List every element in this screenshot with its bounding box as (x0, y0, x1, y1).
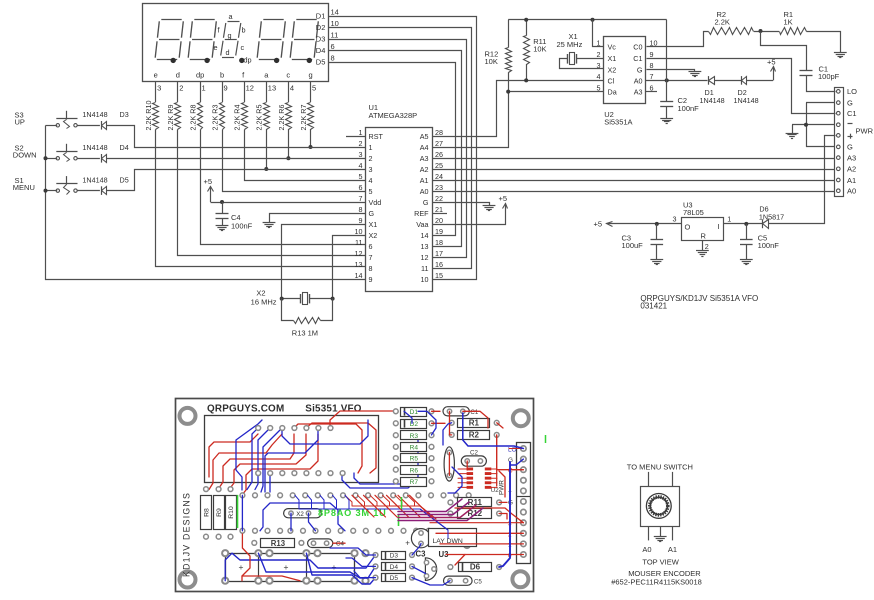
wire minus pin to ground (792, 124, 835, 126)
svg-text:1N4148: 1N4148 (734, 96, 759, 105)
svg-text:C2: C2 (470, 450, 478, 457)
svg-text:A2: A2 (420, 165, 429, 174)
PCB capacitor C3 lay down (411, 529, 430, 548)
svg-text:A0: A0 (642, 545, 651, 554)
svg-text:b: b (242, 26, 246, 35)
capacitor C4 100nF (222, 202, 224, 214)
svg-text:+5: +5 (499, 194, 508, 203)
svg-text:Vaa: Vaa (416, 220, 428, 229)
svg-text:e: e (214, 43, 218, 52)
svg-text:10: 10 (355, 227, 363, 236)
svg-text:11: 11 (331, 31, 339, 40)
svg-text:R1: R1 (469, 418, 480, 427)
svg-text:8: 8 (650, 61, 654, 70)
svg-text:R10: R10 (228, 506, 235, 519)
svg-text:1: 1 (202, 84, 206, 93)
svg-text:R5: R5 (410, 456, 419, 463)
PCB blue bundle middle (295, 495, 448, 538)
encoder body (641, 487, 680, 527)
svg-text:3: 3 (673, 215, 677, 224)
svg-text:9: 9 (224, 84, 228, 93)
encoder shaft circles (646, 494, 671, 519)
PCB display pads bottom row (256, 471, 261, 476)
svg-text:X1: X1 (608, 54, 617, 63)
svg-text:Vdd: Vdd (369, 198, 382, 207)
wire U1 A1 row to connector A1 (432, 180, 835, 182)
svg-text:3: 3 (597, 61, 601, 70)
svg-text:2: 2 (705, 242, 709, 251)
ground at U1 pin 8 (263, 222, 276, 224)
svg-text:D5: D5 (120, 175, 129, 184)
svg-text:4: 4 (369, 176, 373, 185)
svg-text:QRPGUYS.COM: QRPGUYS.COM (207, 403, 284, 414)
svg-text:27: 27 (435, 139, 443, 148)
svg-text:5: 5 (312, 84, 316, 93)
PCB blue traces right area (418, 411, 436, 435)
svg-text:C5: C5 (474, 579, 482, 586)
svg-text:12: 12 (246, 84, 254, 93)
svg-text:3: 3 (157, 84, 161, 93)
svg-text:6: 6 (359, 183, 363, 192)
svg-text:D2: D2 (316, 23, 326, 32)
svg-text:78L05: 78L05 (683, 208, 704, 217)
svg-text:11: 11 (421, 264, 428, 273)
U1 RST stub wire (346, 136, 365, 138)
svg-text:X2: X2 (256, 289, 265, 298)
svg-text:13: 13 (421, 242, 429, 251)
junction R2 R1 (759, 29, 763, 33)
wire U1 Vaa to +5 (433, 209, 506, 225)
wire rail down to A0 row (666, 20, 668, 81)
PCB blue traces display area (247, 428, 258, 490)
svg-text:10: 10 (331, 19, 339, 28)
svg-text:g: g (228, 31, 232, 40)
junction minus (804, 123, 808, 127)
resistor R13 1M (282, 299, 294, 321)
display decimal points (171, 58, 176, 63)
svg-text:21: 21 (435, 205, 443, 214)
svg-text:1N4148: 1N4148 (700, 96, 725, 105)
svg-text:1K: 1K (784, 18, 793, 27)
PCB green line (237, 495, 239, 528)
svg-text:1N5817: 1N5817 (759, 212, 784, 221)
svg-text:13: 13 (268, 84, 276, 93)
svg-text:14: 14 (421, 231, 429, 240)
svg-text:PWR: PWR (856, 127, 874, 136)
PCB resistor R13 (252, 541, 257, 546)
ground at U2 G (689, 71, 702, 73)
svg-text:A0: A0 (847, 187, 856, 196)
svg-text:11: 11 (355, 238, 362, 247)
svg-text:d: d (176, 71, 180, 80)
junction R12 at Da row (506, 90, 510, 94)
svg-text:16 MHz: 16 MHz (251, 298, 277, 307)
svg-text:dp: dp (244, 56, 252, 65)
PCB display module outline (205, 416, 379, 483)
PCB mounting holes (180, 408, 196, 424)
svg-text:8: 8 (359, 205, 363, 214)
junction R5 (264, 167, 268, 171)
wire U2 A0 supply row (646, 80, 708, 82)
svg-text:15: 15 (435, 271, 443, 280)
svg-text:Vc: Vc (608, 43, 617, 52)
svg-text:2.2K R9: 2.2K R9 (166, 105, 175, 131)
svg-text:C1: C1 (470, 409, 478, 416)
svg-text:G: G (847, 98, 853, 107)
diode D6 1N5817 (762, 220, 764, 229)
svg-text:R9: R9 (216, 508, 223, 517)
svg-text:c: c (241, 43, 245, 52)
svg-text:6: 6 (331, 42, 335, 51)
svg-text:12: 12 (355, 249, 363, 258)
PCB crystal X2 footprint (284, 509, 322, 518)
svg-text:1: 1 (359, 128, 363, 137)
svg-text:17: 17 (435, 249, 443, 258)
svg-text:X2: X2 (369, 231, 378, 240)
junction R11 at Cl row (524, 78, 528, 82)
ground after R1 (834, 52, 847, 54)
svg-text:19: 19 (435, 227, 443, 236)
svg-text:+: + (284, 562, 289, 572)
svg-text:X1: X1 (369, 220, 378, 229)
svg-text:KD1JV DESIGNS: KD1JV DESIGNS (182, 492, 192, 577)
svg-text:6: 6 (369, 242, 373, 251)
PCB capacitor C5 footprint (444, 576, 473, 585)
capacitor C1 100pF (800, 70, 813, 72)
svg-text:12: 12 (421, 253, 429, 262)
svg-text:G: G (369, 209, 375, 218)
encoder switch wires (648, 472, 650, 486)
svg-text:A0: A0 (634, 76, 643, 85)
+5 supply arrow at U1 Vdd (210, 187, 212, 203)
svg-text:UP: UP (15, 118, 25, 127)
svg-text:100uF: 100uF (622, 241, 644, 250)
PCB resistor R12 (448, 511, 453, 516)
wire U1 G pin 22 to ground (433, 203, 490, 206)
display D5 wire to U1 pin 19 (329, 63, 456, 236)
PCB blue trace connector column (499, 462, 510, 567)
PCB resistor R2 (449, 433, 454, 438)
svg-text:25: 25 (435, 161, 443, 170)
junction C4 (220, 200, 224, 204)
svg-text:I: I (718, 222, 720, 231)
wire U2 C0 to R2 (647, 32, 709, 47)
PCB connector footprint (517, 443, 531, 564)
svg-text:TOP VIEW: TOP VIEW (642, 558, 679, 567)
svg-text:D2: D2 (410, 421, 419, 428)
svg-text:2.2K R10: 2.2K R10 (144, 101, 153, 131)
PCB purple bundle (398, 499, 462, 512)
ground at C4 (216, 225, 229, 227)
IC U2 Si5351A (604, 37, 646, 104)
svg-text:A1: A1 (668, 545, 677, 554)
svg-text:1: 1 (369, 143, 373, 152)
svg-text:g: g (309, 71, 313, 80)
PCB battery pads (222, 550, 228, 556)
U2 A3 stub wire (646, 91, 657, 93)
svg-text:18: 18 (435, 238, 443, 247)
PCB vertical oval footprint (444, 447, 454, 481)
svg-text:9: 9 (369, 275, 373, 284)
svg-text:LO: LO (847, 87, 857, 96)
svg-text:5: 5 (359, 172, 363, 181)
svg-text:RST: RST (369, 132, 384, 141)
PCB display pads top row (256, 426, 261, 431)
svg-text:14: 14 (355, 271, 363, 280)
svg-text:Si5351A: Si5351A (604, 118, 632, 127)
PCB battery holder outline (226, 554, 355, 582)
svg-text:28: 28 (435, 128, 443, 137)
svg-text:X2: X2 (608, 65, 617, 74)
PCB diodes D3 D4 D5 (373, 553, 378, 558)
svg-text:A1: A1 (847, 176, 856, 185)
PCB red fan middle (345, 495, 436, 519)
ground at U1 pin 22 (483, 205, 496, 207)
svg-text:Cl: Cl (608, 76, 615, 85)
display D4 wire to U1 pin 18 (329, 51, 462, 247)
wire R8 to U1 pin 11 (201, 130, 366, 245)
wire D2 to +5 (747, 80, 773, 82)
connector J1 10-pin header (835, 88, 844, 197)
svg-text:1: 1 (597, 39, 601, 48)
svg-text:13: 13 (355, 260, 363, 269)
svg-text:R8: R8 (203, 508, 210, 517)
svg-text:2: 2 (179, 84, 183, 93)
wire S3 to U1 pin 2 row (107, 126, 366, 148)
svg-text:4: 4 (597, 72, 601, 81)
diode D1 1N4148 (708, 76, 710, 85)
svg-text:R: R (701, 232, 707, 241)
wire R3 to U1 pin 6 (223, 130, 366, 192)
display digit 4 (296, 19, 316, 21)
svg-text:A3: A3 (634, 88, 643, 97)
PCB diodes D1 D2 and resistors R3-R7 (393, 409, 398, 414)
PCB red diagonal bundle (352, 495, 374, 517)
wire R10 to U1 pin 13 (156, 130, 366, 267)
junction S1 bus (44, 189, 48, 193)
svg-text:D1: D1 (316, 11, 326, 20)
svg-text:R7: R7 (410, 479, 419, 486)
svg-text:7: 7 (369, 253, 373, 262)
PCB capacitor C2 footprint (461, 456, 486, 466)
svg-text:MENU: MENU (13, 183, 35, 192)
wire U1 A3 row to connector A3 (432, 158, 835, 160)
svg-text:X2: X2 (296, 511, 304, 518)
PCB blue traces battery area (232, 553, 376, 568)
svg-text:8P8AO 3M 1U: 8P8AO 3M 1U (318, 508, 387, 518)
svg-text:100nF: 100nF (758, 241, 780, 250)
svg-text:D5: D5 (316, 57, 326, 66)
svg-text:2.2K R3: 2.2K R3 (210, 105, 219, 131)
wire R9 to U1 pin 12 (178, 130, 366, 256)
svg-text:10K: 10K (485, 57, 498, 66)
segment resistors R10 R9 R8 R3 R4 R5 R6 R7 2.2K (153, 103, 159, 130)
wire U1 Vdd row (211, 202, 366, 204)
svg-text:2.2K R7: 2.2K R7 (299, 105, 308, 131)
wire rail to U2 Vc pin 1 (593, 20, 604, 47)
PCB resistor R1 (449, 420, 454, 425)
svg-text:A5: A5 (420, 132, 429, 141)
encoder ground wire (660, 526, 662, 536)
svg-text:D4: D4 (120, 143, 129, 152)
encoder ground (654, 536, 667, 538)
svg-text:C1: C1 (633, 54, 642, 63)
svg-text:+: + (405, 539, 410, 548)
svg-text:23: 23 (435, 183, 443, 192)
display segment key diagram (228, 21, 240, 23)
wire S2 to U1 pin 3 (107, 158, 365, 160)
display digit 2 (194, 19, 214, 21)
svg-text:G: G (423, 198, 429, 207)
svg-text:c: c (286, 71, 290, 80)
PCB capacitor C1 footprint (443, 407, 469, 416)
junction R11 top (524, 18, 528, 22)
wire R5 to row of U1 pin 4 (266, 129, 268, 169)
svg-text:2.2K R4: 2.2K R4 (233, 105, 242, 131)
svg-text:100pF: 100pF (818, 72, 840, 81)
wire R1 to ground (807, 32, 841, 53)
PCB resistors R8 R9 R10 vertical (201, 496, 212, 530)
wire U2 C1 to connector C1 (647, 59, 836, 114)
PCB long pad row (240, 493, 245, 498)
svg-text:7: 7 (650, 72, 654, 81)
svg-text:LO: LO (508, 447, 517, 454)
svg-text:R2: R2 (469, 431, 480, 440)
svg-text:10: 10 (421, 275, 429, 284)
svg-text:5: 5 (369, 187, 373, 196)
ground at connector (792, 125, 794, 133)
svg-text:R4: R4 (410, 444, 419, 451)
svg-text:8: 8 (369, 264, 373, 273)
svg-text:2: 2 (369, 154, 373, 163)
svg-text:4: 4 (290, 84, 294, 93)
wire U3 input to D6 (724, 223, 763, 225)
svg-text:dp: dp (196, 71, 204, 80)
svg-text:ATMEGA328P: ATMEGA328P (369, 111, 418, 120)
PCB red traces right area (463, 411, 488, 428)
display digit 1 (161, 19, 181, 21)
diode D3 1N4148 (101, 121, 103, 130)
junction C3 (655, 222, 659, 226)
svg-text:3: 3 (359, 150, 363, 159)
svg-text:7: 7 (359, 194, 363, 203)
svg-text:R6: R6 (410, 467, 419, 474)
svg-text:031421: 031421 (640, 301, 667, 310)
svg-text:24: 24 (435, 172, 443, 181)
PCB small diode bars (404, 407, 406, 416)
svg-text:100nF: 100nF (231, 222, 253, 231)
display digit 3 (263, 19, 283, 21)
wire U1 G pin 8 to ground (270, 214, 366, 223)
svg-text:8: 8 (331, 54, 335, 63)
svg-text:A4: A4 (420, 143, 429, 152)
wire U1 A5 to U2 Cl row (433, 81, 604, 137)
wire R4 to U1 pin 5 (245, 130, 366, 181)
PCB capacitor C4 footprint (308, 539, 333, 548)
wire D1 to D2 (714, 80, 741, 82)
svg-text:100nF: 100nF (678, 104, 700, 113)
svg-text:+5: +5 (767, 58, 776, 67)
svg-text:D6: D6 (470, 563, 481, 572)
PCB diode D6 (448, 565, 453, 570)
PCB red traces display area (209, 434, 258, 477)
PCB resistor R11 (448, 500, 453, 505)
svg-text:D1: D1 (410, 409, 419, 416)
diode D4 1N4148 (101, 154, 103, 163)
svg-text:2.2K R6: 2.2K R6 (277, 105, 286, 131)
diode D5 1N4148 (101, 186, 103, 195)
wire +5 to U3 output (607, 223, 682, 225)
svg-text:D5: D5 (390, 575, 399, 582)
svg-text:2: 2 (597, 50, 601, 59)
svg-text:A3: A3 (847, 153, 856, 162)
switch common bus wire to U1 pin 14 (46, 126, 366, 280)
display D2 wire to U1 pin 16 (329, 28, 472, 269)
svg-text:2: 2 (359, 139, 363, 148)
svg-text:R3: R3 (410, 433, 419, 440)
wire PWR plus to D6 (769, 136, 836, 224)
U1 REF stub wire (432, 213, 447, 215)
wire junction to C1 (761, 32, 807, 71)
svg-text:O: O (685, 223, 691, 232)
U3 ground pin 2 (702, 240, 704, 250)
capacitor C3 100uF (656, 224, 658, 240)
svg-text:#652-PEC11R4115KS0018: #652-PEC11R4115KS0018 (611, 577, 702, 586)
wire U1 A2 row to connector A2 (432, 169, 835, 171)
svg-text:+5: +5 (594, 220, 603, 229)
svg-text:TO MENU SWITCH: TO MENU SWITCH (627, 463, 693, 472)
svg-text:Da: Da (608, 88, 617, 97)
wire C1 to connector LO (807, 76, 836, 92)
+5 arrow feeding U2 (773, 67, 775, 81)
svg-text:+: + (332, 562, 337, 572)
svg-text:16: 16 (435, 260, 443, 269)
svg-text:D3: D3 (390, 553, 399, 560)
svg-text:REF: REF (414, 209, 429, 218)
encoder pin wires A0 A1 (648, 526, 650, 540)
svg-text:A1: A1 (420, 176, 429, 185)
junction C5 (744, 222, 748, 226)
PCB red bus to connector (455, 508, 523, 523)
svg-text:R13 1M: R13 1M (292, 329, 318, 338)
svg-text:DOWN: DOWN (13, 151, 37, 160)
PCB green marks (401, 497, 403, 509)
svg-text:+5: +5 (204, 177, 213, 186)
PCB regulator U3 footprint (425, 558, 436, 581)
PCB IC U2 footprint (467, 468, 474, 471)
svg-text:D4: D4 (316, 46, 326, 55)
display D1 wire to U1 pin 15 (329, 17, 477, 280)
display segment pins wires (155, 81, 157, 102)
svg-text:2.2K R5: 2.2K R5 (255, 105, 264, 131)
svg-text:C0: C0 (633, 43, 642, 52)
+5 arrow at U1 Vaa (505, 204, 507, 209)
svg-text:10K: 10K (533, 44, 546, 53)
ground at C5 (740, 259, 753, 261)
PCB board outline (176, 399, 534, 592)
PCB red trace battery (242, 534, 250, 581)
svg-text:R13: R13 (271, 539, 286, 548)
svg-text:9: 9 (650, 50, 654, 59)
diode D2 1N4148 (741, 76, 743, 85)
svg-text:1: 1 (727, 215, 731, 224)
junction Vc drop (591, 18, 595, 22)
wire ground of connector G - G (806, 102, 835, 104)
svg-text:D3: D3 (316, 34, 326, 43)
capacitor C2 100nF (666, 80, 668, 102)
wire U1 X2 to crystal X2 (333, 236, 366, 299)
svg-text:25 MHz: 25 MHz (557, 40, 583, 49)
